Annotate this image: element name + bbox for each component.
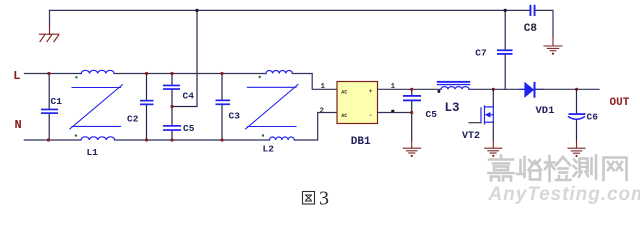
inductor L3 core bars: [437, 81, 470, 85]
wire VT2 drain: [492, 89, 494, 107]
inductor L1 common-mode choke top coil: [81, 70, 114, 73]
svg-text:+: +: [369, 88, 373, 95]
svg-text:AnyTesting.com: AnyTesting.com: [488, 184, 640, 205]
bridge rectifier DB1 body: [337, 82, 378, 124]
wire diode cathode to OUT: [536, 88, 600, 90]
capacitor C8 (series in top line): [530, 5, 536, 16]
node junction N/C2: [145, 138, 148, 141]
capacitor C6 (electrolytic): [569, 89, 586, 140]
svg-text:C8: C8: [524, 23, 538, 35]
svg-text:C2: C2: [127, 114, 139, 125]
inductor L3 polarity dot: [437, 90, 440, 93]
node junction L/C3: [220, 72, 223, 75]
inductor L2 core Z symbol: [246, 85, 299, 130]
wire VT2 source to ground: [492, 122, 494, 140]
svg-text:L2: L2: [263, 144, 275, 155]
ground below VT2: [485, 140, 502, 153]
wire C8 to right ground: [536, 10, 554, 36]
diode VD1: [520, 82, 543, 98]
node junction C4/C5 midpoint: [170, 105, 173, 108]
node junction bus/C5: [410, 88, 413, 91]
svg-text:AC: AC: [341, 89, 347, 95]
node junction N/C3: [220, 138, 223, 141]
capacitor C5 (bulk, after bridge): [403, 89, 421, 140]
inductor L2 common-mode choke top coil: [266, 71, 292, 74]
svg-text:1: 1: [321, 83, 326, 91]
svg-text:-: -: [369, 112, 373, 119]
svg-text:L3: L3: [445, 101, 460, 115]
inductor L3 coil: [441, 87, 469, 90]
node junction bus/VT2 drain: [492, 88, 495, 91]
inductor L1 polarity dot top: [75, 76, 77, 78]
svg-text:N: N: [15, 118, 22, 132]
node junction C5/DB1 minus: [410, 111, 413, 114]
svg-text:C3: C3: [229, 111, 241, 122]
svg-text:C7: C7: [475, 48, 487, 59]
capacitor C1: [41, 74, 58, 141]
caption 图 glyph: [303, 192, 315, 205]
svg-text:DB1: DB1: [351, 136, 371, 148]
ground below C5: [403, 140, 420, 153]
ground below C6: [568, 141, 585, 154]
transistor VT2 arrow: [485, 112, 491, 118]
wire DB1 - output: [378, 112, 412, 114]
wire top earth horizontal line: [50, 9, 530, 11]
inductor L1 bottom coil: [81, 137, 115, 140]
watermark chinese characters: [489, 156, 514, 181]
svg-text:C5: C5: [426, 109, 438, 120]
svg-text:C6: C6: [587, 112, 599, 123]
wire DB1 + output to L3 (DC bus): [378, 88, 525, 90]
svg-text:L1: L1: [87, 147, 99, 158]
svg-text:VT2: VT2: [462, 131, 480, 142]
svg-text:C5: C5: [183, 123, 195, 134]
svg-text:C4: C4: [183, 91, 195, 102]
svg-text:OUT: OUT: [610, 97, 630, 109]
node junction top line x505: [504, 9, 507, 12]
node junction OUT/C6: [575, 88, 578, 91]
capacitor C7: [497, 10, 513, 89]
capacitor C5: [163, 107, 181, 141]
svg-text:VD1: VD1: [536, 105, 555, 117]
inductor L1 core Z symbol: [70, 85, 123, 129]
inductor L2 bottom coil: [270, 137, 295, 140]
node junction N/C1: [47, 138, 50, 141]
node junction N/C5: [170, 138, 173, 141]
wire L line (top AC line): [24, 74, 337, 90]
transistor VT2 gate lead: [469, 122, 481, 124]
transistor VT2 MOSFET: [481, 106, 493, 124]
svg-text:L: L: [13, 69, 20, 83]
wire N line (bottom AC line): [24, 113, 337, 141]
svg-text:C1: C1: [51, 96, 63, 107]
svg-text:3: 3: [319, 188, 329, 210]
svg-text:AC: AC: [341, 113, 347, 119]
capacitor C4: [163, 74, 180, 107]
ground (top right, bar style): [544, 37, 562, 51]
DB1 pin mark right bottom: [391, 110, 394, 113]
ground earth (top-left, hatched): [40, 26, 59, 42]
wire top earth net vertical stem: [49, 10, 51, 25]
node junction L/C1: [47, 72, 50, 75]
capacitor C3: [216, 74, 231, 141]
svg-text:2: 2: [320, 108, 325, 116]
wire riser from C4/C5 midpoint to top line: [172, 10, 197, 106]
capacitor C2: [140, 74, 154, 141]
node junction L/C2: [145, 72, 148, 75]
node junction L/C4: [170, 72, 173, 75]
inductor L2 polarity dot bottom: [262, 134, 264, 136]
inductor L2 polarity dot top: [259, 76, 261, 78]
node junction top line x197: [195, 9, 198, 12]
inductor L1 polarity dot bottom: [75, 134, 77, 136]
